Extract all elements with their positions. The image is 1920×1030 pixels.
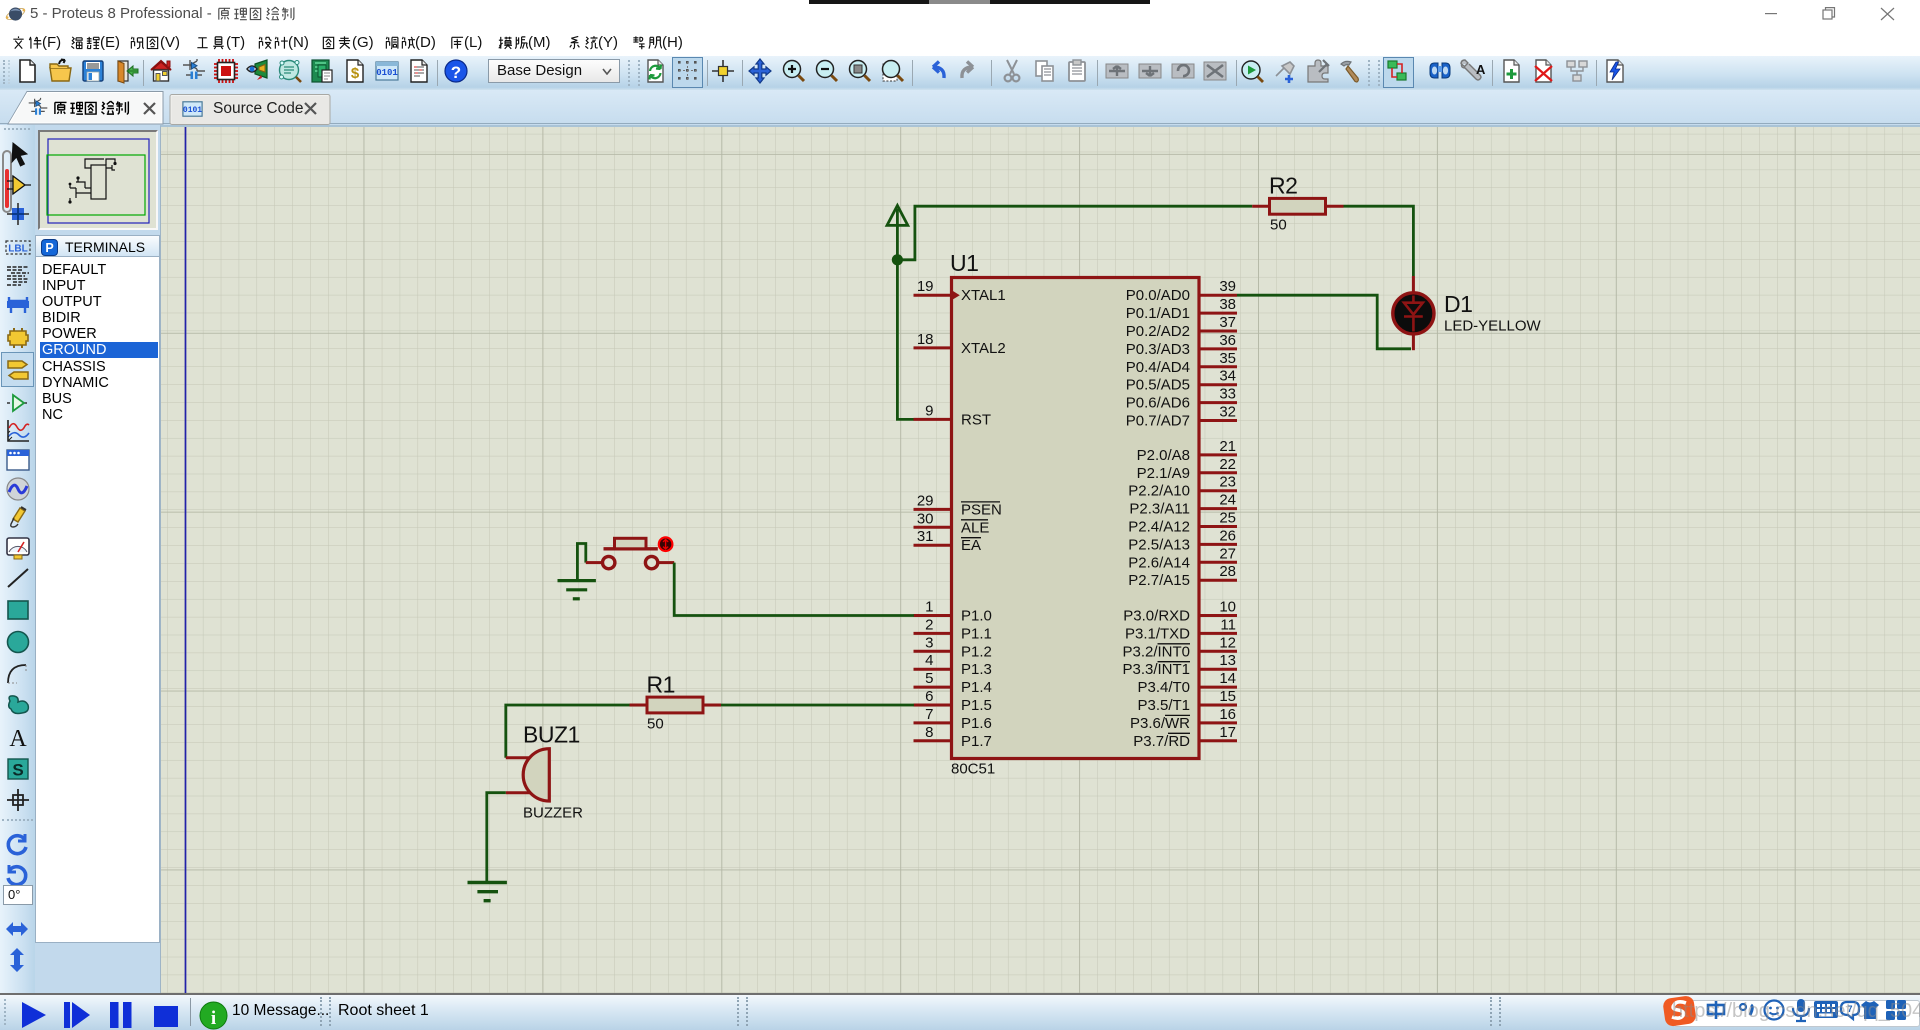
- svg-text:P1.4: P1.4: [961, 679, 992, 696]
- svg-text:18: 18: [917, 331, 934, 348]
- svg-text:P0.2/AD2: P0.2/AD2: [1126, 323, 1190, 340]
- svg-text:P2.4/A12: P2.4/A12: [1128, 519, 1190, 536]
- svg-text:LBL: LBL: [8, 244, 27, 255]
- svg-text:16: 16: [1219, 706, 1236, 723]
- svg-text:LED-YELLOW: LED-YELLOW: [1444, 318, 1542, 335]
- svg-text:0101: 0101: [376, 68, 398, 78]
- svg-text:P2.3/A11: P2.3/A11: [1129, 501, 1190, 518]
- svg-text:U1: U1: [950, 250, 978, 276]
- ground symbol (buzzer): [468, 883, 507, 901]
- svg-text:9: 9: [925, 402, 933, 419]
- svg-text:14: 14: [1219, 670, 1236, 687]
- toolbar icon: open folder: [47, 58, 73, 84]
- minimap overview: [38, 130, 158, 230]
- top pin stub: [506, 756, 531, 759]
- svg-text:0101: 0101: [183, 106, 202, 115]
- svg-text:P2.6/A14: P2.6/A14: [1128, 554, 1190, 571]
- svg-text:26: 26: [1219, 527, 1236, 544]
- svg-text:P3.0/RXD: P3.0/RXD: [1123, 608, 1190, 625]
- object list: [35, 257, 160, 943]
- svg-text:24: 24: [1219, 492, 1236, 509]
- power terminal VCC: [887, 206, 908, 260]
- status bar: [0, 993, 1920, 1030]
- toolbar icon: schematic: [181, 58, 207, 84]
- svg-text:29: 29: [917, 492, 934, 509]
- wire BUZ1 to ground: [487, 793, 506, 883]
- toolbar icon: help: [443, 58, 469, 84]
- sogou input bar: [1674, 1000, 1920, 1027]
- toolbar icon: new doc: [14, 58, 40, 84]
- svg-text:P1.6: P1.6: [961, 715, 992, 732]
- svg-text:P3.3/INT1: P3.3/INT1: [1122, 661, 1190, 678]
- toolbar icon: copy: [1032, 58, 1058, 84]
- toolbar icon: block rotate: [1170, 58, 1196, 84]
- svg-text:P2.5/A13: P2.5/A13: [1128, 536, 1190, 553]
- toolbar icon: block move: [1137, 58, 1163, 84]
- CJK glyph symbol defs: [0, 0, 1, 1]
- step button: [63, 1001, 91, 1029]
- svg-text:23: 23: [1219, 474, 1236, 491]
- svg-text:ALE: ALE: [961, 519, 989, 536]
- sheet border: [185, 127, 187, 993]
- toolbar icon: 3d view: [245, 58, 271, 84]
- svg-text:30: 30: [917, 510, 934, 527]
- toolbar icon: electrical check: [1602, 58, 1628, 84]
- svg-text:BUZZER: BUZZER: [523, 805, 583, 822]
- svg-text:22: 22: [1219, 456, 1236, 473]
- svg-text:XTAL1: XTAL1: [961, 287, 1006, 304]
- svg-text:P2.7/A15: P2.7/A15: [1128, 572, 1190, 589]
- button plate and cap: [604, 547, 658, 550]
- svg-text:34: 34: [1219, 368, 1236, 385]
- toolbar icon: undo: [923, 58, 949, 84]
- toolbar icon: zoom all: [847, 58, 873, 84]
- bottom pin stub: [506, 791, 531, 794]
- toolbar icon: cut: [999, 58, 1025, 84]
- svg-text:36: 36: [1219, 332, 1236, 349]
- button contacts: [603, 556, 615, 568]
- svg-text:P3.1/TXD: P3.1/TXD: [1125, 625, 1190, 642]
- svg-text:P0.6/AD6: P0.6/AD6: [1126, 395, 1190, 412]
- svg-text:RST: RST: [961, 411, 991, 428]
- toolbar icon: new part: [1272, 58, 1298, 84]
- toolbar icon: package tool: [1305, 58, 1331, 84]
- svg-text:10: 10: [1219, 599, 1236, 616]
- terminals header: [35, 235, 160, 257]
- resistor R1: [630, 672, 914, 733]
- button left ground wire: [577, 544, 585, 580]
- toolbar icon: source code: [374, 58, 400, 84]
- svg-text:P3.7/RD: P3.7/RD: [1133, 733, 1190, 750]
- toolbar icon: bom: [342, 58, 368, 84]
- svg-text:27: 27: [1219, 545, 1236, 562]
- wire R2 to LED anode: [1344, 206, 1414, 276]
- toolbar icon: redo: [957, 58, 983, 84]
- toolbar icon: zoom area: [880, 58, 906, 84]
- chip U1 80C51: [950, 250, 1199, 778]
- junction node: [892, 254, 903, 265]
- svg-text:4: 4: [925, 652, 933, 669]
- svg-text:P0.4/AD4: P0.4/AD4: [1126, 359, 1190, 376]
- svg-text:35: 35: [1219, 350, 1236, 367]
- svg-text:P1.5: P1.5: [961, 697, 992, 714]
- ground symbol (button): [558, 581, 596, 599]
- title bar: [0, 0, 1920, 28]
- svg-text:P: P: [45, 241, 53, 255]
- toolbar icon: design explorer2: [1383, 57, 1414, 88]
- svg-text:$: $: [351, 65, 360, 82]
- toolbar icon: new sheet: [1499, 58, 1525, 84]
- toolbar icon: zoom in: [781, 58, 807, 84]
- svg-text:PSEN: PSEN: [961, 501, 1002, 518]
- toolbar icon: hammer: [1337, 58, 1363, 84]
- svg-text:R1: R1: [647, 672, 675, 698]
- overlines PSEN ALE EA: [961, 502, 1000, 538]
- push button SW: [558, 537, 914, 615]
- svg-text:R2: R2: [1269, 173, 1297, 199]
- svg-text:11: 11: [1220, 616, 1236, 633]
- svg-text:P1.0: P1.0: [961, 608, 992, 625]
- wire R1 to BUZ1 top pin: [506, 705, 630, 758]
- wire P0.0 to LED cathode: [1237, 295, 1411, 349]
- left panel: [35, 125, 160, 993]
- svg-text:38: 38: [1219, 296, 1236, 313]
- stop button: [154, 1006, 178, 1027]
- svg-text:P0.7/AD7: P0.7/AD7: [1126, 413, 1190, 430]
- left pin stubs: [914, 295, 952, 741]
- svg-text:25: 25: [1219, 510, 1236, 527]
- body: [523, 749, 549, 801]
- svg-text:?: ?: [451, 63, 461, 82]
- source code tab icon: [182, 101, 203, 117]
- svg-text:P2.2/A10: P2.2/A10: [1128, 483, 1190, 500]
- svg-text:S: S: [12, 761, 23, 780]
- svg-text:P3.2/INT0: P3.2/INT0: [1122, 643, 1190, 660]
- svg-text:50: 50: [1270, 217, 1287, 234]
- svg-text:P3.4/T0: P3.4/T0: [1137, 679, 1190, 696]
- svg-text:1: 1: [925, 599, 933, 616]
- toolbar icon: origin: [710, 58, 736, 84]
- toolbar icon: netlist: [277, 58, 303, 84]
- canvas: [160, 125, 1920, 993]
- toolbar icon: explorer: [406, 58, 432, 84]
- left pin names: [961, 287, 1006, 750]
- watermark: [1672, 1000, 1920, 1023]
- toolbar icon: block delete: [1202, 58, 1228, 84]
- svg-text:12: 12: [1219, 634, 1236, 651]
- svg-text:33: 33: [1219, 386, 1236, 403]
- svg-text:BUZ1: BUZ1: [523, 722, 580, 748]
- svg-text:5: 5: [925, 670, 933, 687]
- button pins: [586, 561, 601, 564]
- svg-text:13: 13: [1219, 652, 1236, 669]
- svg-text:P0.1/AD1: P0.1/AD1: [1126, 305, 1190, 322]
- svg-text:D1: D1: [1444, 291, 1472, 317]
- tab bar: [0, 90, 1920, 125]
- LED D1: [1393, 276, 1542, 350]
- svg-text:P3.5/T1: P3.5/T1: [1137, 697, 1190, 714]
- toolbar icon: pan: [747, 58, 773, 84]
- svg-text:P2.1/A9: P2.1/A9: [1137, 465, 1190, 482]
- svg-text:31: 31: [917, 528, 934, 545]
- svg-text:17: 17: [1219, 724, 1236, 741]
- toolbar icon: goto: [1240, 58, 1266, 84]
- message info icon: [199, 1001, 228, 1030]
- svg-text:P0.5/AD5: P0.5/AD5: [1126, 377, 1190, 394]
- svg-text:P1.2: P1.2: [961, 643, 992, 660]
- right pin numbers: [1219, 278, 1236, 741]
- buzzer BUZ1: [468, 705, 630, 901]
- svg-text:39: 39: [1219, 278, 1236, 295]
- svg-text:P1.1: P1.1: [961, 625, 992, 642]
- wire power to R2: [897, 206, 1252, 260]
- toolbar icon: import: [113, 58, 139, 84]
- svg-text:A: A: [1476, 62, 1485, 77]
- toolbar icon: search: [1427, 58, 1453, 84]
- svg-text:80C51: 80C51: [951, 761, 995, 778]
- right pin stubs: [1199, 295, 1237, 741]
- svg-text:XTAL2: XTAL2: [961, 340, 1006, 357]
- wire power down to RST: [897, 260, 914, 420]
- svg-text:21: 21: [1219, 438, 1236, 455]
- left pin numbers: [917, 278, 934, 741]
- svg-text:P2.0/A8: P2.0/A8: [1137, 447, 1190, 464]
- menu bar: [0, 28, 1920, 56]
- right pin names: [1122, 287, 1190, 750]
- pin XTAL1 clock mark: [953, 291, 960, 300]
- toolbar: [0, 56, 1920, 90]
- toolbar icon: pcb layout: [309, 58, 335, 84]
- svg-text:15: 15: [1219, 688, 1236, 705]
- toolbar icon: zoom out: [814, 58, 840, 84]
- toolbar icon: remove sheet: [1531, 58, 1557, 84]
- svg-text:7: 7: [925, 706, 933, 723]
- svg-text:28: 28: [1219, 563, 1236, 580]
- toolbar icon: refresh: [642, 58, 668, 84]
- toolbar icon: home: [148, 58, 174, 84]
- svg-text:32: 32: [1219, 404, 1236, 421]
- toolbar icon: goto sheet: [1564, 58, 1590, 84]
- svg-text:6: 6: [925, 688, 933, 705]
- svg-text:EA: EA: [961, 537, 981, 554]
- svg-text:19: 19: [917, 278, 934, 295]
- svg-text:3: 3: [925, 634, 933, 651]
- toolbar icon: save: [80, 58, 106, 84]
- toolbar icon: paste: [1065, 58, 1091, 84]
- resistor R2: [1252, 173, 1343, 234]
- toolbar icon: grid toggle: [672, 57, 703, 88]
- svg-text:P1.3: P1.3: [961, 661, 992, 678]
- left tool strip: [0, 125, 35, 993]
- play button: [20, 1001, 48, 1029]
- pause button: [109, 1001, 133, 1029]
- button actuator red dot: [659, 537, 673, 551]
- toolbar icon: property tool: [1459, 58, 1485, 84]
- wire button to P1.0: [674, 563, 914, 616]
- svg-text:P0.3/AD3: P0.3/AD3: [1126, 341, 1190, 358]
- svg-text:8: 8: [925, 724, 933, 741]
- svg-text:A: A: [9, 726, 27, 751]
- active tab: schematic capture: [0, 90, 340, 125]
- svg-text:2: 2: [925, 616, 933, 633]
- toolbar icon: block copy: [1104, 58, 1130, 84]
- svg-text:P0.0/AD0: P0.0/AD0: [1126, 287, 1190, 304]
- svg-text:P1.7: P1.7: [961, 733, 992, 750]
- toolbar icon: pcb chip: [213, 58, 239, 84]
- svg-text:50: 50: [647, 716, 664, 733]
- overlines INT0 INT1 WR RD: [1158, 644, 1191, 734]
- svg-text:i: i: [211, 1008, 216, 1029]
- svg-text:P3.6/WR: P3.6/WR: [1130, 715, 1190, 732]
- svg-text:37: 37: [1219, 314, 1236, 331]
